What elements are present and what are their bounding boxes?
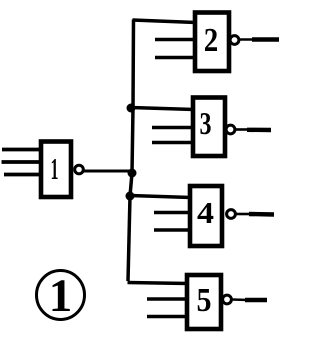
gate U1 input wire a [2, 148, 41, 152]
gate U1 input wire b [2, 160, 42, 164]
gate U4 body [190, 186, 222, 246]
gate U5 input stub b [147, 315, 189, 319]
wire bus to U5 [128, 283, 189, 284]
svg-text:5: 5 [197, 282, 212, 319]
gate U1 input wire c [4, 173, 41, 177]
svg-text:3: 3 [200, 105, 212, 141]
gate U2 input stub b [155, 56, 195, 60]
wire vertical bus [128, 20, 134, 282]
wire U1 output to bus [84, 170, 134, 173]
wire U5 output [232, 298, 248, 301]
gate U4 input stub b [154, 228, 192, 232]
wire U4 output heavy stub [249, 212, 274, 217]
gate U2 input stub a [155, 38, 195, 42]
gate U3 input stub b [152, 141, 193, 145]
gate U3 body [193, 98, 225, 157]
node junction U3 tap [127, 104, 136, 113]
wire U2 output heavy stub [252, 37, 279, 41]
gate U5 body [187, 275, 221, 329]
gate U2 body [195, 13, 229, 72]
wire bus to U3 [131, 108, 194, 110]
svg-text:4: 4 [197, 195, 214, 230]
gate U4 inversion bubble [227, 210, 236, 219]
svg-text:2: 2 [204, 22, 219, 59]
gate U3 input stub a [152, 126, 193, 130]
gate U4 input stub a [154, 211, 192, 215]
figure number circle [37, 271, 85, 320]
gate U5 inversion bubble [223, 295, 232, 304]
node junction U1 output [128, 169, 137, 178]
wire U2 output [239, 38, 256, 41]
node junction U4 tap [126, 192, 135, 201]
wire bus to U4 [130, 196, 191, 198]
svg-text:1: 1 [49, 270, 73, 322]
gate U1 body [41, 142, 71, 198]
gate U2 inversion bubble [230, 36, 239, 45]
svg-text:1: 1 [51, 151, 59, 186]
wire U4 output [236, 213, 252, 216]
gate U1 inversion bubble [75, 165, 84, 174]
gate U3 inversion bubble [226, 125, 235, 134]
wire bus to U2 [133, 20, 197, 23]
gate U5 input stub a [147, 297, 189, 301]
wire U5 output heavy stub [245, 298, 267, 302]
wire U3 output heavy stub [247, 128, 271, 133]
wire U3 output [236, 128, 251, 131]
